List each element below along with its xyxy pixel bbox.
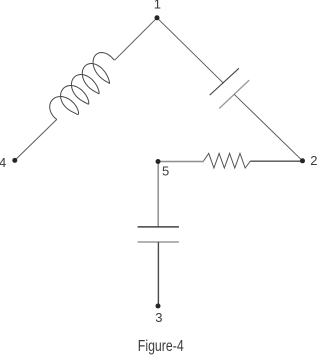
wire node2 to resistor xyxy=(250,160,302,162)
capacitor C1 plate 2 xyxy=(219,80,249,108)
node 2 xyxy=(300,158,305,163)
node 1 xyxy=(155,15,160,20)
svg-text:4: 4 xyxy=(0,155,6,170)
wire node1 to capacitor C1 xyxy=(157,18,224,84)
svg-text:5: 5 xyxy=(162,163,169,178)
svg-text:1: 1 xyxy=(154,0,161,12)
node 5 xyxy=(156,159,161,164)
svg-text:2: 2 xyxy=(310,153,317,168)
svg-text:3: 3 xyxy=(155,310,162,325)
node 4 xyxy=(12,158,17,163)
wire node5 to capacitor C2 xyxy=(157,162,159,227)
svg-text:Figure-4: Figure-4 xyxy=(138,338,184,355)
capacitor C1 plate 1 xyxy=(210,68,239,95)
wire capacitor C1 to node2 xyxy=(234,94,302,161)
wire capacitor C2 to node3 xyxy=(157,242,159,306)
wire resistor to node5 xyxy=(158,161,204,163)
resistor R1 xyxy=(204,153,251,168)
node 3 xyxy=(156,304,161,309)
wire node4 to inductor xyxy=(15,119,57,160)
wire inductor to node1 xyxy=(115,18,157,60)
capacitor C2 bottom plate xyxy=(138,241,179,243)
inductor L1 xyxy=(50,53,115,120)
capacitor C2 top plate xyxy=(138,226,179,228)
